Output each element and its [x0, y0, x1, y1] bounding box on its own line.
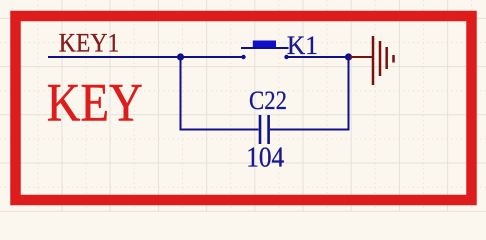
- ground lead: [350, 56, 373, 58]
- switch K1 contact right: [284, 55, 288, 59]
- ground bar 4: [392, 55, 395, 63]
- capacitor C22 plate right: [267, 115, 270, 144]
- ground bar 3: [385, 47, 388, 69]
- switch K1 contact left: [241, 55, 245, 59]
- junction left: [177, 53, 184, 60]
- wire: right of switch to ground junction: [287, 56, 349, 58]
- svg-text:C22: C22: [249, 85, 287, 115]
- junction right: [345, 53, 352, 60]
- wire: right vertical: [348, 57, 350, 130]
- switch K1 actuator bar: [241, 47, 289, 49]
- svg-text:104: 104: [246, 143, 284, 174]
- wire: capacitor to bottom right: [270, 129, 350, 131]
- svg-text:KEY1: KEY1: [59, 29, 120, 58]
- ground bar 2: [379, 41, 382, 76]
- ground bar 1: [372, 36, 375, 85]
- svg-text:K1: K1: [287, 31, 318, 60]
- wire: left horizontal to switch: [48, 56, 243, 58]
- wire: bottom left to capacitor: [180, 129, 259, 131]
- switch K1 button cap: [253, 41, 276, 48]
- wire: left vertical: [180, 57, 182, 130]
- capacitor C22 plate left: [259, 115, 262, 144]
- svg-text:KEY: KEY: [47, 72, 143, 132]
